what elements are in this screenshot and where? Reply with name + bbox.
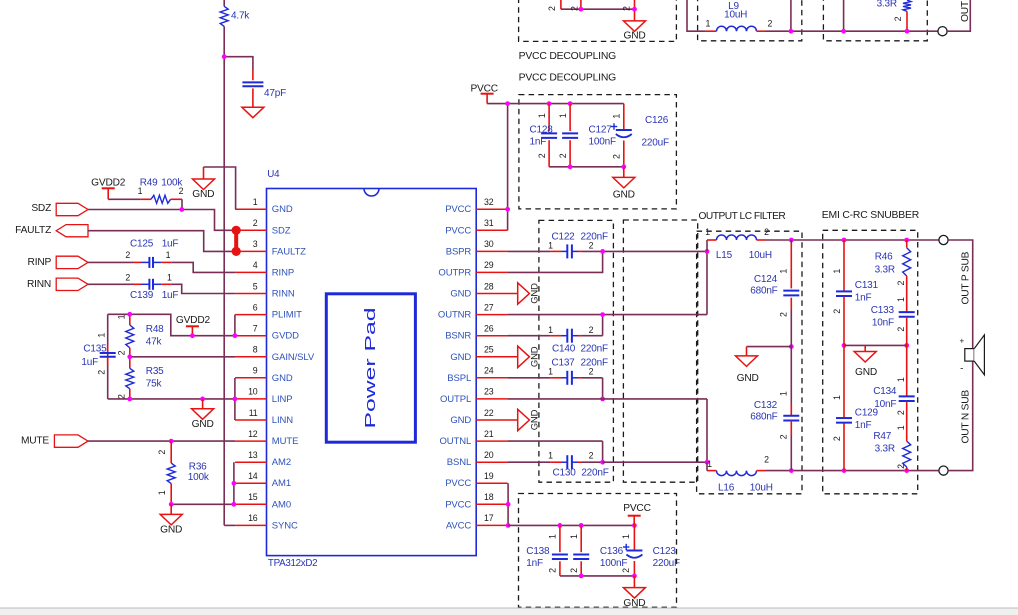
svg-text:3.3R: 3.3R bbox=[877, 0, 897, 9]
svg-text:47pF: 47pF bbox=[264, 88, 286, 99]
svg-text:1: 1 bbox=[253, 197, 258, 207]
svg-text:13: 13 bbox=[248, 450, 258, 460]
svg-text:220nF: 220nF bbox=[581, 344, 608, 355]
svg-text:2: 2 bbox=[548, 568, 558, 573]
svg-text:3: 3 bbox=[253, 239, 258, 249]
svg-text:PVCC DECOUPLING: PVCC DECOUPLING bbox=[519, 51, 617, 62]
svg-text:GND: GND bbox=[192, 189, 214, 200]
svg-text:2: 2 bbox=[896, 410, 906, 415]
svg-text:22: 22 bbox=[484, 408, 494, 418]
svg-text:2: 2 bbox=[768, 19, 773, 29]
svg-text:1: 1 bbox=[157, 490, 167, 495]
svg-text:1nF: 1nF bbox=[530, 136, 547, 147]
svg-text:RINN: RINN bbox=[272, 289, 295, 300]
svg-text:10nF: 10nF bbox=[872, 318, 894, 329]
svg-text:1nF: 1nF bbox=[526, 558, 543, 569]
svg-text:2: 2 bbox=[778, 434, 788, 439]
svg-text:OUTPR: OUTPR bbox=[438, 267, 471, 278]
svg-text:R48: R48 bbox=[146, 324, 164, 335]
svg-text:BSNL: BSNL bbox=[447, 457, 471, 468]
svg-text:24: 24 bbox=[484, 366, 494, 376]
svg-text:RINN: RINN bbox=[27, 279, 51, 290]
svg-text:2: 2 bbox=[570, 6, 580, 11]
svg-text:GND: GND bbox=[450, 352, 471, 363]
svg-text:SDZ: SDZ bbox=[272, 225, 291, 236]
svg-text:220uF: 220uF bbox=[642, 138, 669, 149]
svg-text:18: 18 bbox=[484, 492, 494, 502]
svg-text:GND: GND bbox=[272, 204, 293, 215]
svg-text:GND: GND bbox=[160, 525, 182, 536]
svg-text:GND: GND bbox=[613, 189, 635, 200]
svg-text:1: 1 bbox=[167, 272, 172, 282]
svg-text:21: 21 bbox=[484, 429, 494, 439]
svg-text:2: 2 bbox=[125, 272, 130, 282]
svg-text:PVCC: PVCC bbox=[445, 225, 471, 236]
svg-text:1: 1 bbox=[707, 459, 712, 469]
svg-text:220nF: 220nF bbox=[581, 467, 608, 478]
svg-text:1: 1 bbox=[832, 395, 842, 400]
svg-text:PLIMIT: PLIMIT bbox=[272, 310, 302, 321]
svg-text:680nF: 680nF bbox=[750, 411, 777, 422]
svg-text:1: 1 bbox=[117, 314, 127, 319]
svg-text:AVCC: AVCC bbox=[446, 520, 472, 531]
svg-text:2: 2 bbox=[125, 250, 130, 260]
svg-text:C130: C130 bbox=[553, 467, 577, 478]
svg-text:OUTPUT LC FILTER: OUTPUT LC FILTER bbox=[699, 211, 786, 222]
svg-text:10: 10 bbox=[248, 387, 258, 397]
svg-text:220nF: 220nF bbox=[581, 358, 608, 369]
svg-text:C126: C126 bbox=[645, 115, 669, 126]
svg-text:1uF: 1uF bbox=[81, 357, 98, 368]
svg-text:8: 8 bbox=[253, 345, 258, 355]
svg-text:OUTPL: OUTPL bbox=[440, 394, 471, 405]
svg-text:C139: C139 bbox=[130, 290, 154, 301]
svg-text:2: 2 bbox=[764, 227, 769, 237]
svg-text:2: 2 bbox=[764, 455, 769, 465]
svg-text:GND: GND bbox=[272, 373, 293, 384]
svg-text:GAIN/SLV: GAIN/SLV bbox=[272, 352, 315, 363]
svg-text:GND: GND bbox=[529, 346, 540, 367]
svg-text:2: 2 bbox=[157, 450, 167, 455]
svg-text:10uH: 10uH bbox=[724, 10, 747, 21]
svg-text:1uF: 1uF bbox=[162, 290, 179, 301]
svg-text:SDZ: SDZ bbox=[31, 203, 51, 214]
svg-text:GND: GND bbox=[529, 409, 540, 430]
svg-text:1: 1 bbox=[778, 391, 788, 396]
svg-text:+: + bbox=[959, 336, 964, 345]
svg-text:3.3R: 3.3R bbox=[875, 264, 895, 275]
svg-text:C135: C135 bbox=[83, 344, 107, 355]
svg-text:220nF: 220nF bbox=[581, 231, 608, 242]
svg-text:2: 2 bbox=[569, 568, 579, 573]
svg-text:C123: C123 bbox=[653, 546, 677, 557]
svg-text:2: 2 bbox=[253, 218, 258, 228]
svg-text:2: 2 bbox=[832, 436, 842, 441]
svg-text:27: 27 bbox=[484, 302, 494, 312]
svg-text:LINP: LINP bbox=[272, 394, 293, 405]
svg-text:1: 1 bbox=[569, 534, 579, 539]
svg-text:680nF: 680nF bbox=[750, 286, 777, 297]
svg-text:C140: C140 bbox=[552, 344, 576, 355]
svg-text:AM1: AM1 bbox=[272, 478, 291, 489]
svg-text:GVDD: GVDD bbox=[272, 331, 299, 342]
svg-text:4.7k: 4.7k bbox=[231, 11, 250, 22]
svg-text:6: 6 bbox=[253, 302, 258, 312]
svg-text:MUTE: MUTE bbox=[21, 435, 49, 446]
svg-text:2: 2 bbox=[896, 280, 906, 285]
svg-text:C131: C131 bbox=[855, 280, 879, 291]
svg-text:L16: L16 bbox=[718, 483, 735, 494]
svg-text:GND: GND bbox=[450, 415, 471, 426]
svg-text:1: 1 bbox=[706, 18, 711, 28]
svg-text:-: - bbox=[960, 363, 963, 374]
svg-text:OUT N SUB: OUT N SUB bbox=[960, 390, 971, 444]
svg-text:100nF: 100nF bbox=[600, 558, 627, 569]
svg-text:1: 1 bbox=[138, 186, 143, 196]
svg-text:GVDD2: GVDD2 bbox=[91, 177, 126, 188]
svg-text:1: 1 bbox=[537, 113, 547, 118]
svg-text:FAULTZ: FAULTZ bbox=[15, 225, 51, 236]
svg-text:1: 1 bbox=[548, 534, 558, 539]
svg-text:GND: GND bbox=[529, 283, 540, 304]
svg-text:14: 14 bbox=[248, 471, 258, 481]
svg-text:R47: R47 bbox=[873, 431, 891, 442]
svg-text:1: 1 bbox=[548, 450, 553, 460]
svg-text:9: 9 bbox=[253, 366, 258, 376]
svg-text:SYNC: SYNC bbox=[272, 520, 298, 531]
svg-text:AM2: AM2 bbox=[272, 457, 291, 468]
svg-text:BSNR: BSNR bbox=[445, 331, 471, 342]
svg-text:47k: 47k bbox=[146, 337, 163, 348]
svg-text:C134: C134 bbox=[873, 386, 897, 397]
svg-text:5: 5 bbox=[253, 281, 258, 291]
svg-text:1: 1 bbox=[896, 425, 906, 430]
svg-text:RINP: RINP bbox=[28, 257, 52, 268]
svg-text:BSPR: BSPR bbox=[446, 246, 472, 257]
svg-text:C138: C138 bbox=[526, 546, 550, 557]
svg-text:2: 2 bbox=[179, 186, 184, 196]
svg-text:LINN: LINN bbox=[272, 415, 293, 426]
svg-text:30: 30 bbox=[484, 239, 494, 249]
svg-text:GND: GND bbox=[623, 598, 645, 609]
svg-text:75k: 75k bbox=[146, 379, 163, 390]
svg-text:2: 2 bbox=[896, 464, 906, 469]
svg-text:GND: GND bbox=[623, 31, 645, 42]
svg-text:17: 17 bbox=[484, 513, 494, 523]
svg-text:L15: L15 bbox=[716, 250, 733, 261]
svg-text:2: 2 bbox=[893, 16, 903, 21]
svg-text:16: 16 bbox=[248, 513, 258, 523]
svg-text:2: 2 bbox=[621, 568, 631, 573]
svg-text:25: 25 bbox=[484, 345, 494, 355]
svg-text:MUTE: MUTE bbox=[272, 436, 299, 447]
svg-text:1: 1 bbox=[166, 250, 171, 260]
svg-text:R46: R46 bbox=[875, 252, 893, 263]
svg-text:1: 1 bbox=[548, 325, 553, 335]
svg-text:AM0: AM0 bbox=[272, 499, 291, 510]
svg-text:1: 1 bbox=[612, 114, 622, 119]
svg-text:C128: C128 bbox=[530, 125, 554, 136]
svg-text:19: 19 bbox=[484, 471, 494, 481]
svg-text:R35: R35 bbox=[146, 366, 164, 377]
svg-text:1: 1 bbox=[621, 534, 631, 539]
svg-text:FAULTZ: FAULTZ bbox=[272, 246, 306, 257]
svg-text:20: 20 bbox=[484, 450, 494, 460]
svg-text:PVCC: PVCC bbox=[445, 204, 471, 215]
svg-text:10nF: 10nF bbox=[874, 399, 896, 410]
svg-text:2: 2 bbox=[589, 240, 594, 250]
svg-text:1: 1 bbox=[778, 269, 788, 274]
svg-text:23: 23 bbox=[484, 387, 494, 397]
svg-text:PVCC: PVCC bbox=[623, 503, 651, 514]
svg-text:2: 2 bbox=[117, 350, 127, 355]
svg-text:220uF: 220uF bbox=[653, 558, 680, 569]
svg-text:12: 12 bbox=[248, 429, 258, 439]
svg-text:1nF: 1nF bbox=[855, 420, 872, 431]
svg-text:31: 31 bbox=[484, 218, 494, 228]
svg-text:32: 32 bbox=[484, 197, 494, 207]
svg-text:PVCC: PVCC bbox=[445, 499, 471, 510]
svg-text:2: 2 bbox=[537, 153, 547, 158]
svg-text:1: 1 bbox=[705, 227, 710, 237]
svg-text:GVDD2: GVDD2 bbox=[176, 315, 211, 326]
svg-text:4: 4 bbox=[253, 260, 258, 270]
svg-text:1uF: 1uF bbox=[162, 239, 179, 250]
svg-text:C122: C122 bbox=[551, 231, 575, 242]
svg-text:GND: GND bbox=[737, 373, 759, 384]
svg-text:C127: C127 bbox=[589, 125, 613, 136]
svg-text:2: 2 bbox=[547, 6, 557, 11]
svg-text:26: 26 bbox=[484, 324, 494, 334]
svg-text:1: 1 bbox=[96, 333, 106, 338]
svg-text:OUTNL: OUTNL bbox=[439, 436, 471, 447]
svg-text:GND: GND bbox=[192, 419, 214, 430]
svg-text:10uH: 10uH bbox=[750, 483, 773, 494]
svg-text:RINP: RINP bbox=[272, 267, 294, 278]
svg-text:U4: U4 bbox=[267, 169, 280, 180]
svg-text:2: 2 bbox=[558, 153, 568, 158]
svg-text:15: 15 bbox=[248, 492, 258, 502]
svg-text:1: 1 bbox=[548, 367, 553, 377]
svg-text:R36: R36 bbox=[189, 462, 207, 473]
svg-text:BSPL: BSPL bbox=[447, 373, 471, 384]
svg-text:GND: GND bbox=[450, 289, 471, 300]
svg-text:TPA312xD2: TPA312xD2 bbox=[268, 558, 317, 569]
svg-text:OUT P SUB: OUT P SUB bbox=[960, 0, 971, 22]
svg-text:1: 1 bbox=[896, 377, 906, 382]
svg-text:1nF: 1nF bbox=[855, 293, 872, 304]
svg-text:PVCC DECOUPLING: PVCC DECOUPLING bbox=[519, 73, 617, 84]
svg-text:2: 2 bbox=[622, 6, 632, 11]
svg-text:C133: C133 bbox=[871, 305, 895, 316]
svg-text:100nF: 100nF bbox=[589, 136, 616, 147]
svg-text:2: 2 bbox=[832, 309, 842, 314]
svg-text:PVCC: PVCC bbox=[445, 478, 471, 489]
svg-text:1: 1 bbox=[832, 269, 842, 274]
svg-text:2: 2 bbox=[96, 370, 106, 375]
svg-text:R49: R49 bbox=[140, 177, 158, 188]
svg-text:2: 2 bbox=[612, 154, 622, 159]
svg-text:C137: C137 bbox=[551, 358, 575, 369]
svg-text:7: 7 bbox=[253, 324, 258, 334]
svg-text:C136: C136 bbox=[600, 546, 624, 557]
svg-text:2: 2 bbox=[117, 394, 127, 399]
svg-text:2: 2 bbox=[589, 367, 594, 377]
svg-text:11: 11 bbox=[249, 408, 258, 418]
svg-text:2: 2 bbox=[778, 312, 788, 317]
svg-text:C125: C125 bbox=[130, 239, 154, 250]
svg-text:28: 28 bbox=[484, 281, 494, 291]
svg-text:2: 2 bbox=[589, 450, 594, 460]
svg-text:1: 1 bbox=[558, 113, 568, 118]
svg-text:OUTNR: OUTNR bbox=[438, 310, 472, 321]
svg-text:3.3R: 3.3R bbox=[875, 444, 895, 455]
svg-text:OUT P SUB: OUT P SUB bbox=[960, 251, 971, 304]
svg-text:2: 2 bbox=[896, 327, 906, 332]
svg-text:1: 1 bbox=[896, 297, 906, 302]
svg-text:C132: C132 bbox=[754, 400, 778, 411]
svg-text:1: 1 bbox=[548, 240, 553, 250]
svg-text:Power Pad: Power Pad bbox=[363, 308, 379, 429]
svg-text:EMI C-RC SNUBBER: EMI C-RC SNUBBER bbox=[822, 210, 920, 221]
svg-text:C124: C124 bbox=[754, 274, 778, 285]
svg-text:29: 29 bbox=[484, 260, 494, 270]
svg-text:100k: 100k bbox=[188, 472, 210, 483]
svg-text:10uH: 10uH bbox=[749, 250, 772, 261]
svg-text:GND: GND bbox=[855, 367, 877, 378]
svg-text:2: 2 bbox=[589, 325, 594, 335]
